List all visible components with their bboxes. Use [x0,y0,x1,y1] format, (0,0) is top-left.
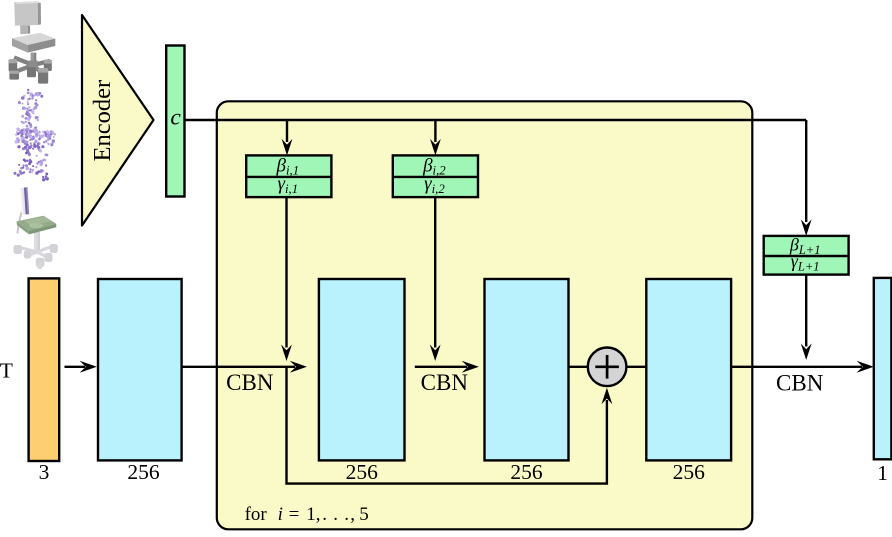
wire: branch down to beta/gamma L+1 [805,120,807,222]
svg-text:256: 256 [673,460,706,484]
wire: branch down to beta/gamma 2 [434,120,436,142]
wire: fc1 to CBN junction 1 [182,366,295,368]
svg-text:c: c [170,105,181,131]
svg-text:Encoder: Encoder [89,80,116,162]
wire: fc4 to output bar via CBN 3 [731,366,862,368]
svg-text:256: 256 [127,460,160,484]
node: input coordinate bar (3) [29,278,60,461]
voxel chair image [9,1,56,83]
svg-text:256: 256 [346,460,379,484]
wire: beta/gamma 1 to CBN junction 1 [285,197,287,347]
for-loop block (i = 1..5) [217,101,753,529]
rendered chair image [14,187,58,269]
wire: beta/gamma L+1 to CBN junction 3 [805,275,807,347]
svg-text:CBN: CBN [226,370,274,395]
skip wire: CBN junction 1 to adder [287,367,607,484]
svg-text:1: 1 [877,461,888,485]
fc layer box 3 (256) [485,279,569,460]
wire: c to conditioning branches [185,119,807,121]
wire: fc2 to CBN junction 2 [415,366,467,368]
point cloud chair image [14,89,57,182]
svg-text:T: T [0,359,13,383]
op: encoder triangle [82,15,154,226]
node: output bar (1) [874,278,892,459]
beta/gamma box L+1 [764,235,849,275]
beta/gamma box 2 [393,155,478,197]
svg-text:CBN: CBN [776,370,824,395]
svg-text:CBN: CBN [421,370,469,395]
fc layer box 4 (256) [646,279,731,460]
svg-text:3: 3 [39,460,50,484]
wire: fc3 to adder [569,366,589,368]
svg-text:fori=1,...,5: fori=1,...,5 [245,504,369,525]
svg-text:256: 256 [510,460,543,484]
wire: input to fc layer 1 [65,366,86,368]
fc layer box 1 (256) [98,279,182,460]
wire: adder to fc layer 4 [626,366,646,368]
beta/gamma box 1 [246,155,331,197]
fc layer box 2 (256) [319,279,405,460]
wire: branch down to beta/gamma 1 [286,120,288,142]
adder (+) [588,348,627,387]
node c: latent code bar [166,46,184,197]
wire: beta/gamma 2 to CBN junction 2 [434,197,436,347]
